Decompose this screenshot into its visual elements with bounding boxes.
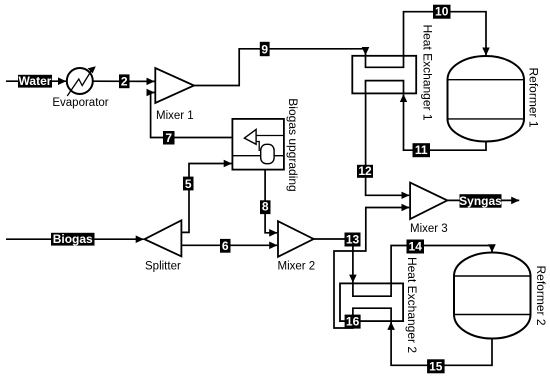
svg-text:2: 2 [121,75,128,89]
heat exchanger HX2 [340,257,419,353]
node stream 16 label [345,315,361,329]
svg-text:13: 13 [346,233,360,247]
wire stream 10 [404,12,487,56]
wire stream 2 [93,80,155,82]
node stream 7 label [163,131,175,145]
node stream 2 label [119,74,130,88]
svg-text:Mixer 3: Mixer 3 [410,223,448,235]
node stream 11 label [413,143,431,157]
wire stream 14 [391,246,492,284]
svg-text:10: 10 [435,5,449,19]
node stream 13 label [345,233,361,247]
node stream 10 label [433,5,451,19]
wire water feed [6,80,66,82]
svg-text:Syngas: Syngas [459,194,502,208]
wire stream 13 [314,239,353,283]
svg-text:Water: Water [19,74,52,88]
wire stream 12 [366,93,410,195]
wire stream 6 [181,244,277,246]
svg-text:15: 15 [429,359,443,373]
mixer Mixer 2 [278,221,316,272]
wire biogas feed [6,238,144,240]
svg-text:12: 12 [358,164,372,178]
node stream 9 label [260,42,270,57]
svg-text:9: 9 [261,42,268,56]
wire stream 11 [404,94,487,150]
reformer R1 [448,56,541,142]
svg-text:5: 5 [185,177,192,191]
svg-text:Heat Exchanger 1: Heat Exchanger 1 [421,24,435,120]
svg-text:14: 14 [409,240,423,254]
heat exchanger HX1 [352,24,434,120]
splitter [145,220,182,272]
svg-text:7: 7 [165,131,172,145]
svg-text:8: 8 [262,200,269,214]
node stream 8 label [260,200,271,214]
svg-text:Biogas: Biogas [53,232,93,246]
node stream 6 label [220,239,231,253]
wire syngas out [447,199,519,201]
svg-text:16: 16 [346,315,360,329]
wire stream 8 [265,170,277,233]
wire stream 5 [181,164,231,233]
svg-text:Reformer 1: Reformer 1 [527,67,541,127]
node stream 5 label [183,177,194,191]
svg-text:Mixer 1: Mixer 1 [156,110,194,122]
svg-text:Evaporator: Evaporator [52,97,108,109]
wire stream 15 [391,322,492,365]
node Water label [18,74,52,88]
wire stream 7 [151,93,233,138]
svg-text:Reformer 2: Reformer 2 [534,265,548,325]
node Biogas label [51,232,95,246]
node stream 12 label [357,164,373,178]
svg-text:6: 6 [222,239,229,253]
mixer Mixer 1 [155,68,194,122]
svg-text:Heat Exchanger 2: Heat Exchanger 2 [405,257,419,353]
node Syngas label [459,194,502,208]
node stream 14 label [407,240,425,254]
mixer Mixer 3 [410,183,448,235]
svg-text:Splitter: Splitter [145,261,181,273]
node stream 15 label [427,359,445,373]
reformer R2 [454,252,548,338]
svg-text:11: 11 [415,143,428,157]
wire stream 16 [334,208,409,329]
svg-text:Mixer 2: Mixer 2 [278,261,316,273]
unit Biogas upgrading [232,98,300,191]
wire stream 9 [194,49,366,86]
svg-text:Biogas upgrading: Biogas upgrading [286,98,300,191]
evaporator [52,66,108,109]
